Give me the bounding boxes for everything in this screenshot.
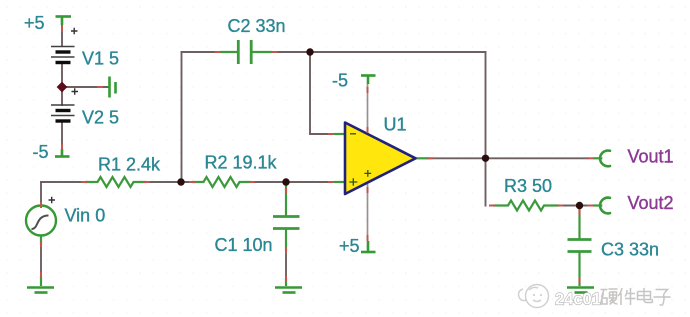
svg-text:R2 19.1k: R2 19.1k	[205, 153, 278, 173]
svg-text:+5: +5	[339, 236, 360, 256]
svg-text:Vout2: Vout2	[628, 193, 674, 213]
svg-text:U1: U1	[384, 115, 407, 135]
svg-text:C1 10n: C1 10n	[215, 235, 273, 255]
svg-text:V1 5: V1 5	[82, 49, 119, 69]
svg-text:R1 2.4k: R1 2.4k	[98, 155, 161, 175]
svg-text:V2 5: V2 5	[82, 108, 119, 128]
svg-text:R3 50: R3 50	[504, 176, 552, 196]
svg-text:Vin 0: Vin 0	[65, 206, 106, 226]
svg-text:Vout1: Vout1	[628, 147, 674, 167]
svg-text:+5: +5	[24, 13, 45, 33]
svg-text:C3 33n: C3 33n	[601, 240, 659, 260]
svg-text:-5: -5	[332, 71, 348, 91]
svg-text:C2 33n: C2 33n	[228, 16, 286, 36]
svg-text:24c01: 24c01	[555, 291, 601, 309]
svg-text:-5: -5	[33, 142, 49, 162]
